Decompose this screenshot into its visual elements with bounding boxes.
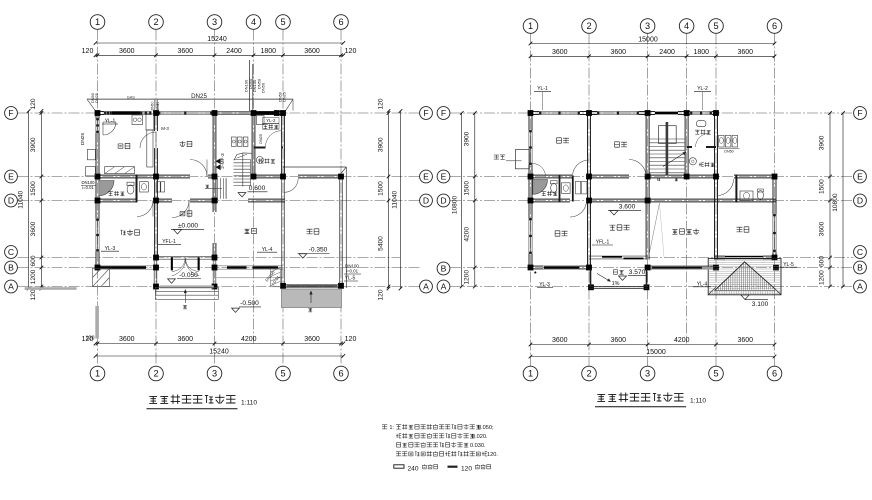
right plan room label living: [609, 225, 615, 230]
left plan wall row D: [96, 198, 138, 200]
right plan balcony sliding door row C: [589, 255, 648, 257]
svg-text:D: D: [423, 196, 429, 206]
right plan wall axis3: [645, 111, 647, 178]
left plan landing up arrow: [205, 187, 222, 189]
left plan porch entry double door row C: [158, 255, 213, 257]
svg-text:4: 4: [251, 17, 256, 27]
svg-text:2: 2: [586, 21, 591, 31]
svg-text:GAS: GAS: [127, 95, 135, 99]
svg-text:6: 6: [338, 17, 343, 27]
right plan stairs arrow: [663, 152, 686, 167]
svg-text:120: 120: [461, 465, 472, 472]
notes block: [382, 425, 387, 429]
svg-text:1: 1: [528, 369, 533, 379]
svg-text:i=0.01: i=0.01: [82, 185, 94, 190]
left plan stairwell wall axis4: [251, 111, 253, 178]
svg-text:1200: 1200: [818, 270, 825, 285]
svg-text:DN50: DN50: [151, 102, 155, 111]
right plan columns: [528, 110, 534, 116]
right plan bottom segment dimensions: [531, 344, 775, 346]
svg-text:F: F: [423, 108, 428, 118]
svg-text:600: 600: [818, 256, 825, 267]
right plan slope 1 percent arrow: [597, 274, 611, 282]
svg-text:3600: 3600: [611, 337, 627, 344]
svg-text:D: D: [857, 196, 863, 206]
left plan porch west wall thin: [153, 260, 155, 288]
right plan bathroom lower left fixtures: [551, 183, 557, 192]
svg-text:C: C: [857, 247, 863, 257]
svg-text:F: F: [857, 108, 862, 118]
right plan top segment dimensions: [531, 55, 775, 57]
right plan door arcs: [573, 160, 590, 177]
left plan door arcs: [140, 132, 156, 148]
svg-text:YL-5: YL-5: [345, 275, 356, 281]
svg-text:0.020.: 0.020.: [472, 434, 488, 440]
svg-text:120: 120: [345, 48, 357, 55]
right plan small bathroom fixtures: [740, 191, 753, 201]
svg-text:-0.500: -0.500: [240, 300, 259, 307]
svg-text:YL-4: YL-4: [262, 247, 273, 253]
left plan top segment dimensions: [96, 54, 344, 56]
svg-text:E: E: [423, 172, 429, 182]
left plan room label living room: [244, 229, 249, 234]
svg-text:15240: 15240: [209, 349, 229, 356]
axis bubbles top left plan 1-6: [90, 15, 105, 30]
left plan left side total dim 11040: [28, 111, 30, 289]
row bubbles far right F E D C B A: [854, 107, 867, 120]
grid row lines left plan: [18, 112, 420, 114]
svg-text:1200: 1200: [464, 270, 471, 285]
svg-text:DN25: DN25: [80, 133, 86, 146]
svg-text:3600: 3600: [304, 336, 320, 343]
right plan top total dimension 15000: [531, 43, 775, 45]
svg-text:3: 3: [212, 17, 217, 27]
svg-text:10800: 10800: [832, 193, 839, 212]
svg-text:15000: 15000: [646, 349, 666, 356]
svg-text:YL-3: YL-3: [105, 246, 116, 252]
left plan porch up arrow: [184, 290, 186, 304]
svg-text:3600: 3600: [611, 49, 627, 56]
svg-text:YL-4: YL-4: [697, 281, 708, 287]
right plan windows axis1: [528, 130, 530, 165]
svg-text:11040: 11040: [391, 191, 398, 209]
right plan room label washroom: [699, 163, 704, 167]
svg-text:3600: 3600: [552, 337, 568, 344]
svg-text:1: 1: [528, 21, 533, 31]
left plan outer wall axis1: [95, 111, 97, 118]
svg-text:-0.050: -0.050: [179, 272, 198, 279]
svg-text:2400: 2400: [659, 49, 675, 56]
left plan porch east wall thin: [212, 260, 214, 288]
left plan stair upper treads with basins: [232, 137, 237, 146]
right plan balcony walls: [590, 270, 592, 288]
svg-text:5: 5: [713, 21, 718, 31]
right plan small bath wall: [735, 175, 737, 203]
svg-text:3600: 3600: [738, 337, 754, 344]
svg-text:3600: 3600: [552, 49, 568, 56]
row bubbles left plan right side F E D A: [420, 107, 433, 120]
left plan section arrows 2-MF-3: [216, 159, 221, 164]
svg-text:120: 120: [30, 98, 37, 109]
svg-text:DN25: DN25: [258, 134, 263, 144]
left plan garage west wall thin axis5: [281, 178, 283, 287]
svg-text:3600: 3600: [119, 336, 135, 343]
left plan DN25 pipe line along north wall: [87, 98, 293, 100]
svg-text:E: E: [857, 172, 863, 182]
svg-text:D: D: [440, 196, 446, 206]
right plan stair well rectangle: [659, 126, 677, 144]
svg-text:1200: 1200: [30, 269, 37, 284]
svg-text:15000: 15000: [638, 36, 658, 43]
svg-text:A: A: [423, 282, 429, 292]
right plan wall row C study bottom: [714, 255, 725, 257]
left plan porch ground gray strip: [160, 285, 214, 288]
svg-text:3600: 3600: [178, 336, 194, 343]
svg-text:1500: 1500: [464, 181, 471, 196]
left plan hollow wall row F stair bay: [217, 111, 252, 113]
left plan landing steps: [217, 178, 219, 199]
left plan wall row E: [96, 174, 159, 176]
grid axis lines right plan vertical: [530, 34, 532, 367]
svg-text:5: 5: [280, 369, 285, 379]
left plan right side total dim 11040: [400, 111, 402, 289]
left plan exterior stair hatch at A: [93, 268, 110, 286]
right plan wall row E: [529, 174, 573, 176]
right plan water tank box: [515, 150, 529, 169]
svg-text:1500: 1500: [30, 181, 37, 196]
right plan room label bathroom sw: [541, 192, 546, 196]
grid row lines right plan: [450, 112, 854, 114]
svg-text:0.600: 0.600: [249, 185, 266, 192]
svg-text:1: 1: [95, 17, 100, 27]
svg-text:1: 1: [95, 369, 100, 379]
left plan garage bottom wall thin with door: [281, 284, 343, 286]
svg-text:1500: 1500: [377, 181, 384, 196]
right plan room label bedroom n: [615, 142, 620, 147]
svg-text:F: F: [8, 108, 13, 118]
left plan terrace edge line below living room: [217, 277, 284, 279]
svg-text:YL-5: YL-5: [783, 262, 794, 268]
svg-text:3900: 3900: [818, 135, 825, 150]
right plan left side segment dims: [474, 113, 476, 287]
left plan kitchen closet hatch: [105, 167, 135, 174]
svg-text:A: A: [441, 282, 447, 292]
svg-text:YFL-1: YFL-1: [596, 240, 610, 246]
svg-text:DN50: DN50: [724, 150, 733, 154]
svg-text:DN25: DN25: [191, 93, 207, 100]
svg-text:B: B: [8, 263, 14, 273]
left plan room label bathroom west: [108, 192, 113, 196]
svg-text:1:110: 1:110: [241, 400, 257, 407]
left plan room label kitchen: [118, 144, 123, 149]
right plan room label study: [737, 227, 743, 232]
right plan window axis6 study: [772, 214, 774, 252]
right plan hip roof over porch: [708, 258, 781, 294]
svg-text:DN25: DN25: [283, 92, 287, 102]
svg-text:YFL-1: YFL-1: [162, 239, 176, 245]
svg-text:0.050;: 0.050;: [478, 425, 494, 431]
svg-text:120: 120: [345, 336, 357, 343]
grid axis lines left plan vertical: [97, 30, 99, 367]
left plan wall axis2: [154, 111, 156, 131]
right plan stair wall axis4: [684, 111, 686, 178]
svg-text:2400: 2400: [226, 48, 242, 55]
axis bubbles bottom left plan 1,2,3,5,6: [90, 366, 105, 381]
svg-text:DN40: DN40: [156, 102, 160, 111]
left plan top total dimension 15240: [96, 42, 344, 44]
svg-text:YL-1: YL-1: [105, 119, 116, 125]
svg-text:4: 4: [684, 21, 689, 31]
svg-text:600: 600: [30, 255, 37, 266]
svg-text:6: 6: [772, 369, 777, 379]
svg-text:4200: 4200: [674, 337, 690, 344]
svg-text:0.030.: 0.030.: [470, 443, 486, 449]
svg-text:B: B: [441, 264, 447, 274]
svg-text:i=0.01: i=0.01: [346, 269, 359, 274]
right plan heavy window row C study: [725, 256, 763, 259]
svg-text:F: F: [441, 108, 446, 118]
svg-text:3600: 3600: [30, 221, 37, 236]
svg-text:A: A: [857, 282, 863, 292]
right plan wall axis5: [714, 111, 716, 178]
svg-text:±0.000: ±0.000: [178, 222, 198, 229]
svg-text:3: 3: [645, 21, 650, 31]
svg-text:1800: 1800: [261, 48, 277, 55]
svg-text:1:: 1:: [390, 425, 394, 431]
left plan gray strip below axis1: [95, 306, 99, 339]
svg-text:3900: 3900: [464, 131, 471, 146]
left plan flue boxes on west wall: [87, 150, 95, 160]
svg-text:D: D: [8, 196, 14, 206]
right plan ground strip gray: [702, 267, 712, 270]
right plan bottom total dimension 15000: [531, 356, 775, 358]
left plan wall row F: [96, 111, 105, 113]
right plan wall axis6: [772, 175, 774, 203]
left plan bathroom partition top: [254, 147, 266, 149]
svg-text:2: 2: [153, 369, 158, 379]
right plan void roof line below: [649, 203, 660, 258]
legend 240 wall: [394, 465, 404, 468]
svg-text:B: B: [857, 263, 863, 273]
right plan roof level 3.100: [741, 295, 749, 300]
left plan bathroom east wall axis5: [281, 111, 283, 178]
left plan porch steps: [155, 287, 218, 299]
svg-text:4200: 4200: [241, 336, 257, 343]
right plan stairs center rail: [666, 122, 669, 176]
svg-text:3: 3: [212, 369, 217, 379]
left plan wall axis3: [212, 111, 214, 178]
svg-text:3600: 3600: [818, 221, 825, 236]
svg-text:DN50: DN50: [260, 82, 265, 93]
right plan bathroom partition: [687, 146, 692, 148]
svg-text:120: 120: [377, 98, 384, 109]
right plan right side total dim 10800: [842, 113, 844, 287]
right plan windows row B: [531, 265, 590, 267]
right plan windows row F: [539, 110, 580, 112]
axis bubbles top right plan 1-6: [523, 19, 538, 34]
svg-text:15240: 15240: [207, 36, 227, 43]
svg-text:3600: 3600: [738, 49, 754, 56]
left plan windows row F: [104, 110, 112, 112]
svg-text:M-3: M-3: [161, 126, 169, 131]
svg-text:YL-2: YL-2: [266, 118, 276, 123]
right plan balcony level 3.570: [613, 270, 617, 275]
right plan wash basins row: [719, 136, 725, 148]
svg-text:10800: 10800: [452, 196, 459, 215]
title first floor plan: [149, 396, 157, 403]
svg-text:5: 5: [280, 17, 285, 27]
left plan kitchen fixtures: [103, 122, 116, 135]
left plan left side segment dims: [40, 111, 42, 289]
svg-text:2: 2: [153, 17, 158, 27]
svg-text:3.600: 3.600: [619, 203, 636, 210]
right plan room label void: [672, 230, 677, 235]
right plan room label bedroom nw: [557, 138, 562, 143]
svg-text:3900: 3900: [377, 137, 384, 152]
svg-text:6: 6: [338, 369, 343, 379]
right plan wall row B: [529, 265, 544, 267]
svg-text:240: 240: [408, 465, 419, 472]
right plan left side total dim 10800: [461, 113, 463, 287]
svg-text:2: 2: [586, 369, 591, 379]
left plan room label entry hall: [180, 211, 185, 216]
left plan top bathroom fixtures: [257, 116, 265, 125]
left plan bathroom partition wall: [136, 175, 138, 203]
left plan room label garage: [307, 229, 313, 234]
left plan hatched steps west of garage: [271, 269, 281, 287]
svg-text:3.100: 3.100: [752, 301, 769, 308]
svg-text:YL-1: YL-1: [537, 86, 548, 92]
left plan columns: [95, 110, 101, 116]
right plan wall row F: [529, 111, 540, 113]
left plan room label washroom: [259, 159, 264, 163]
svg-text:1500: 1500: [818, 179, 825, 194]
right plan roof bottom band hatch: [710, 291, 780, 295]
right plan shower lower left: [533, 180, 548, 195]
svg-text:120: 120: [30, 289, 37, 300]
svg-text:2-MF-3: 2-MF-3: [220, 153, 226, 169]
svg-text:DN25: DN25: [95, 93, 99, 103]
right plan room label bedroom sw: [555, 231, 560, 236]
right plan wall axis2: [587, 111, 589, 178]
svg-text:3: 3: [645, 369, 650, 379]
left plan wall row B bedroom bottom: [96, 265, 159, 267]
svg-text:3600: 3600: [119, 48, 135, 55]
row bubbles right plan left side F E D B A: [437, 107, 450, 120]
left plan bathroom fixtures: [99, 181, 114, 196]
left plan room label elder room: [121, 230, 126, 235]
svg-text:3900: 3900: [30, 137, 37, 152]
title second floor plan: [597, 394, 605, 401]
svg-text:C: C: [8, 247, 14, 257]
left plan riser pipes top axis4: [249, 60, 251, 111]
left plan room label bathroom top: [263, 118, 280, 124]
row bubbles far left F E D C B A: [5, 107, 18, 120]
left plan stairs: [234, 159, 251, 161]
right plan wall row D: [529, 198, 571, 200]
svg-text:120: 120: [82, 48, 94, 55]
right plan stairs treads: [649, 138, 685, 140]
left plan riser pipes top axis2: [154, 99, 156, 111]
left plan bottom segment dimensions: [96, 343, 344, 345]
left plan right side segment dims: [388, 111, 390, 289]
right plan upper bathroom fixtures: [697, 121, 706, 127]
svg-text:5: 5: [713, 369, 718, 379]
right plan right side segment dims: [829, 113, 831, 287]
svg-text:A: A: [8, 282, 14, 292]
left plan windows axis1 wall: [95, 118, 97, 133]
left plan garage east wall thin axis6: [339, 178, 341, 287]
svg-text:3600: 3600: [178, 48, 194, 55]
left plan garage eave: [283, 166, 346, 168]
svg-text:YL-2: YL-2: [697, 86, 708, 92]
left plan room label dining: [180, 141, 186, 147]
right plan room label bathroom top: [695, 130, 700, 134]
svg-text:1800: 1800: [694, 49, 710, 56]
legend 120 wall: [448, 466, 458, 468]
svg-text:120: 120: [377, 289, 384, 300]
left plan living room south windows row B: [217, 265, 284, 267]
svg-text:3600: 3600: [304, 48, 320, 55]
left plan ground line gray at A: [25, 287, 77, 290]
right plan sw bathroom partitions: [559, 176, 561, 202]
svg-text:E: E: [441, 172, 447, 182]
svg-text:1:110: 1:110: [690, 398, 706, 405]
svg-text:6: 6: [772, 21, 777, 31]
svg-text:1%: 1%: [612, 281, 620, 287]
svg-text:E: E: [8, 172, 14, 182]
right plan wall axis1: [528, 111, 530, 130]
svg-text:4200: 4200: [464, 227, 471, 242]
left plan bottom total dimension 15240: [96, 355, 344, 357]
svg-text:120: 120: [86, 336, 95, 342]
svg-text:YL-3: YL-3: [539, 282, 550, 288]
svg-text:-0.350: -0.350: [309, 246, 328, 253]
left plan garage driveway: [282, 289, 342, 308]
svg-text:120.: 120.: [487, 452, 498, 458]
left plan laundry boxes: [156, 182, 160, 192]
svg-text:11040: 11040: [18, 191, 25, 209]
left plan garage drive up arrow: [310, 291, 312, 303]
axis bubbles bottom right plan 1,2,3,5,6: [523, 366, 538, 381]
svg-text:5400: 5400: [377, 236, 384, 251]
